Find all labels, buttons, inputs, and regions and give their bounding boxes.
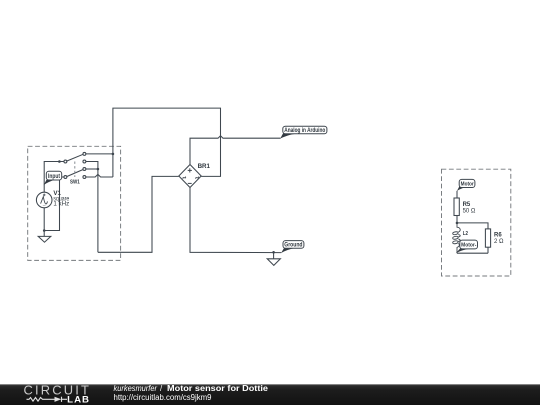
wire V1- down	[43, 208, 45, 231]
svg-text:Ground: Ground	[284, 242, 302, 249]
net flag Motor	[457, 179, 475, 191]
node junction dot	[97, 168, 100, 171]
mechanical link (dashed)	[74, 162, 76, 178]
wire throw4 with hop	[86, 174, 113, 177]
ground (left)	[38, 231, 51, 243]
svg-text:LAB: LAB	[67, 395, 90, 405]
inductor L2	[453, 223, 461, 253]
lever pole 2	[67, 170, 83, 177]
ground (right)	[267, 252, 280, 265]
svg-text:2 Ω: 2 Ω	[494, 239, 504, 245]
wire throw3	[86, 168, 98, 170]
terminals	[64, 160, 67, 163]
svg-text:Input: Input	[48, 174, 60, 180]
svg-text:1 kHz: 1 kHz	[53, 200, 69, 207]
svg-text:Analog in Arduino: Analog in Arduino	[284, 127, 325, 134]
wire BR1 - down to ground	[190, 188, 281, 253]
wire bottom to SW1 common B	[44, 177, 64, 231]
svg-text:50 Ω: 50 Ω	[463, 209, 476, 215]
svg-text:http://circuitlab.com/cs9jkm9: http://circuitlab.com/cs9jkm9	[114, 393, 212, 402]
bridge rectifier BR1	[179, 165, 201, 188]
svg-text:L2: L2	[463, 231, 468, 237]
node junction dot	[58, 160, 61, 163]
svg-text:R5: R5	[463, 202, 471, 208]
wire bottom left to BR1	[98, 176, 179, 252]
svg-text:R6: R6	[494, 233, 502, 239]
svg-text:SW1: SW1	[70, 180, 80, 186]
wire BR1 + up to flag, hop over vertical	[190, 136, 281, 165]
wire up and across top	[113, 108, 221, 177]
wire throw1 to node	[86, 153, 113, 155]
resistor R5	[454, 198, 459, 216]
svg-text:BR1: BR1	[198, 163, 211, 170]
lever pole 1	[67, 154, 83, 161]
svg-text:Motor sensor for Dottie: Motor sensor for Dottie	[167, 384, 269, 393]
svg-text:Motor: Motor	[461, 182, 475, 188]
wire V1+ to SW1 common A	[44, 162, 64, 193]
node junction dot V1-	[43, 229, 46, 232]
net flag Ground	[281, 241, 304, 253]
voltage source V1	[36, 192, 52, 208]
wire R5 to node	[456, 216, 458, 223]
net flag Motor-	[456, 240, 478, 253]
node junction dot	[272, 251, 275, 254]
enclosure box left (dashed)	[28, 146, 121, 260]
svg-text:kurkesmurfer: kurkesmurfer	[114, 384, 158, 393]
net flag Analog in Arduino	[280, 126, 327, 138]
footer bar	[0, 384, 540, 405]
svg-text:Motor-: Motor-	[461, 243, 476, 249]
node junction dot	[112, 153, 115, 156]
net flag Input	[44, 171, 62, 185]
wire throw2 down	[86, 162, 98, 253]
bottom wire of right box	[457, 252, 488, 254]
switch SW1	[64, 152, 86, 178]
wire R6 down	[487, 247, 489, 253]
wire node to R6	[457, 223, 488, 229]
wire flag to R5	[456, 191, 458, 198]
enclosure box right (dashed)	[442, 169, 511, 276]
node junction dot	[456, 222, 459, 225]
resistor R6	[485, 229, 490, 247]
